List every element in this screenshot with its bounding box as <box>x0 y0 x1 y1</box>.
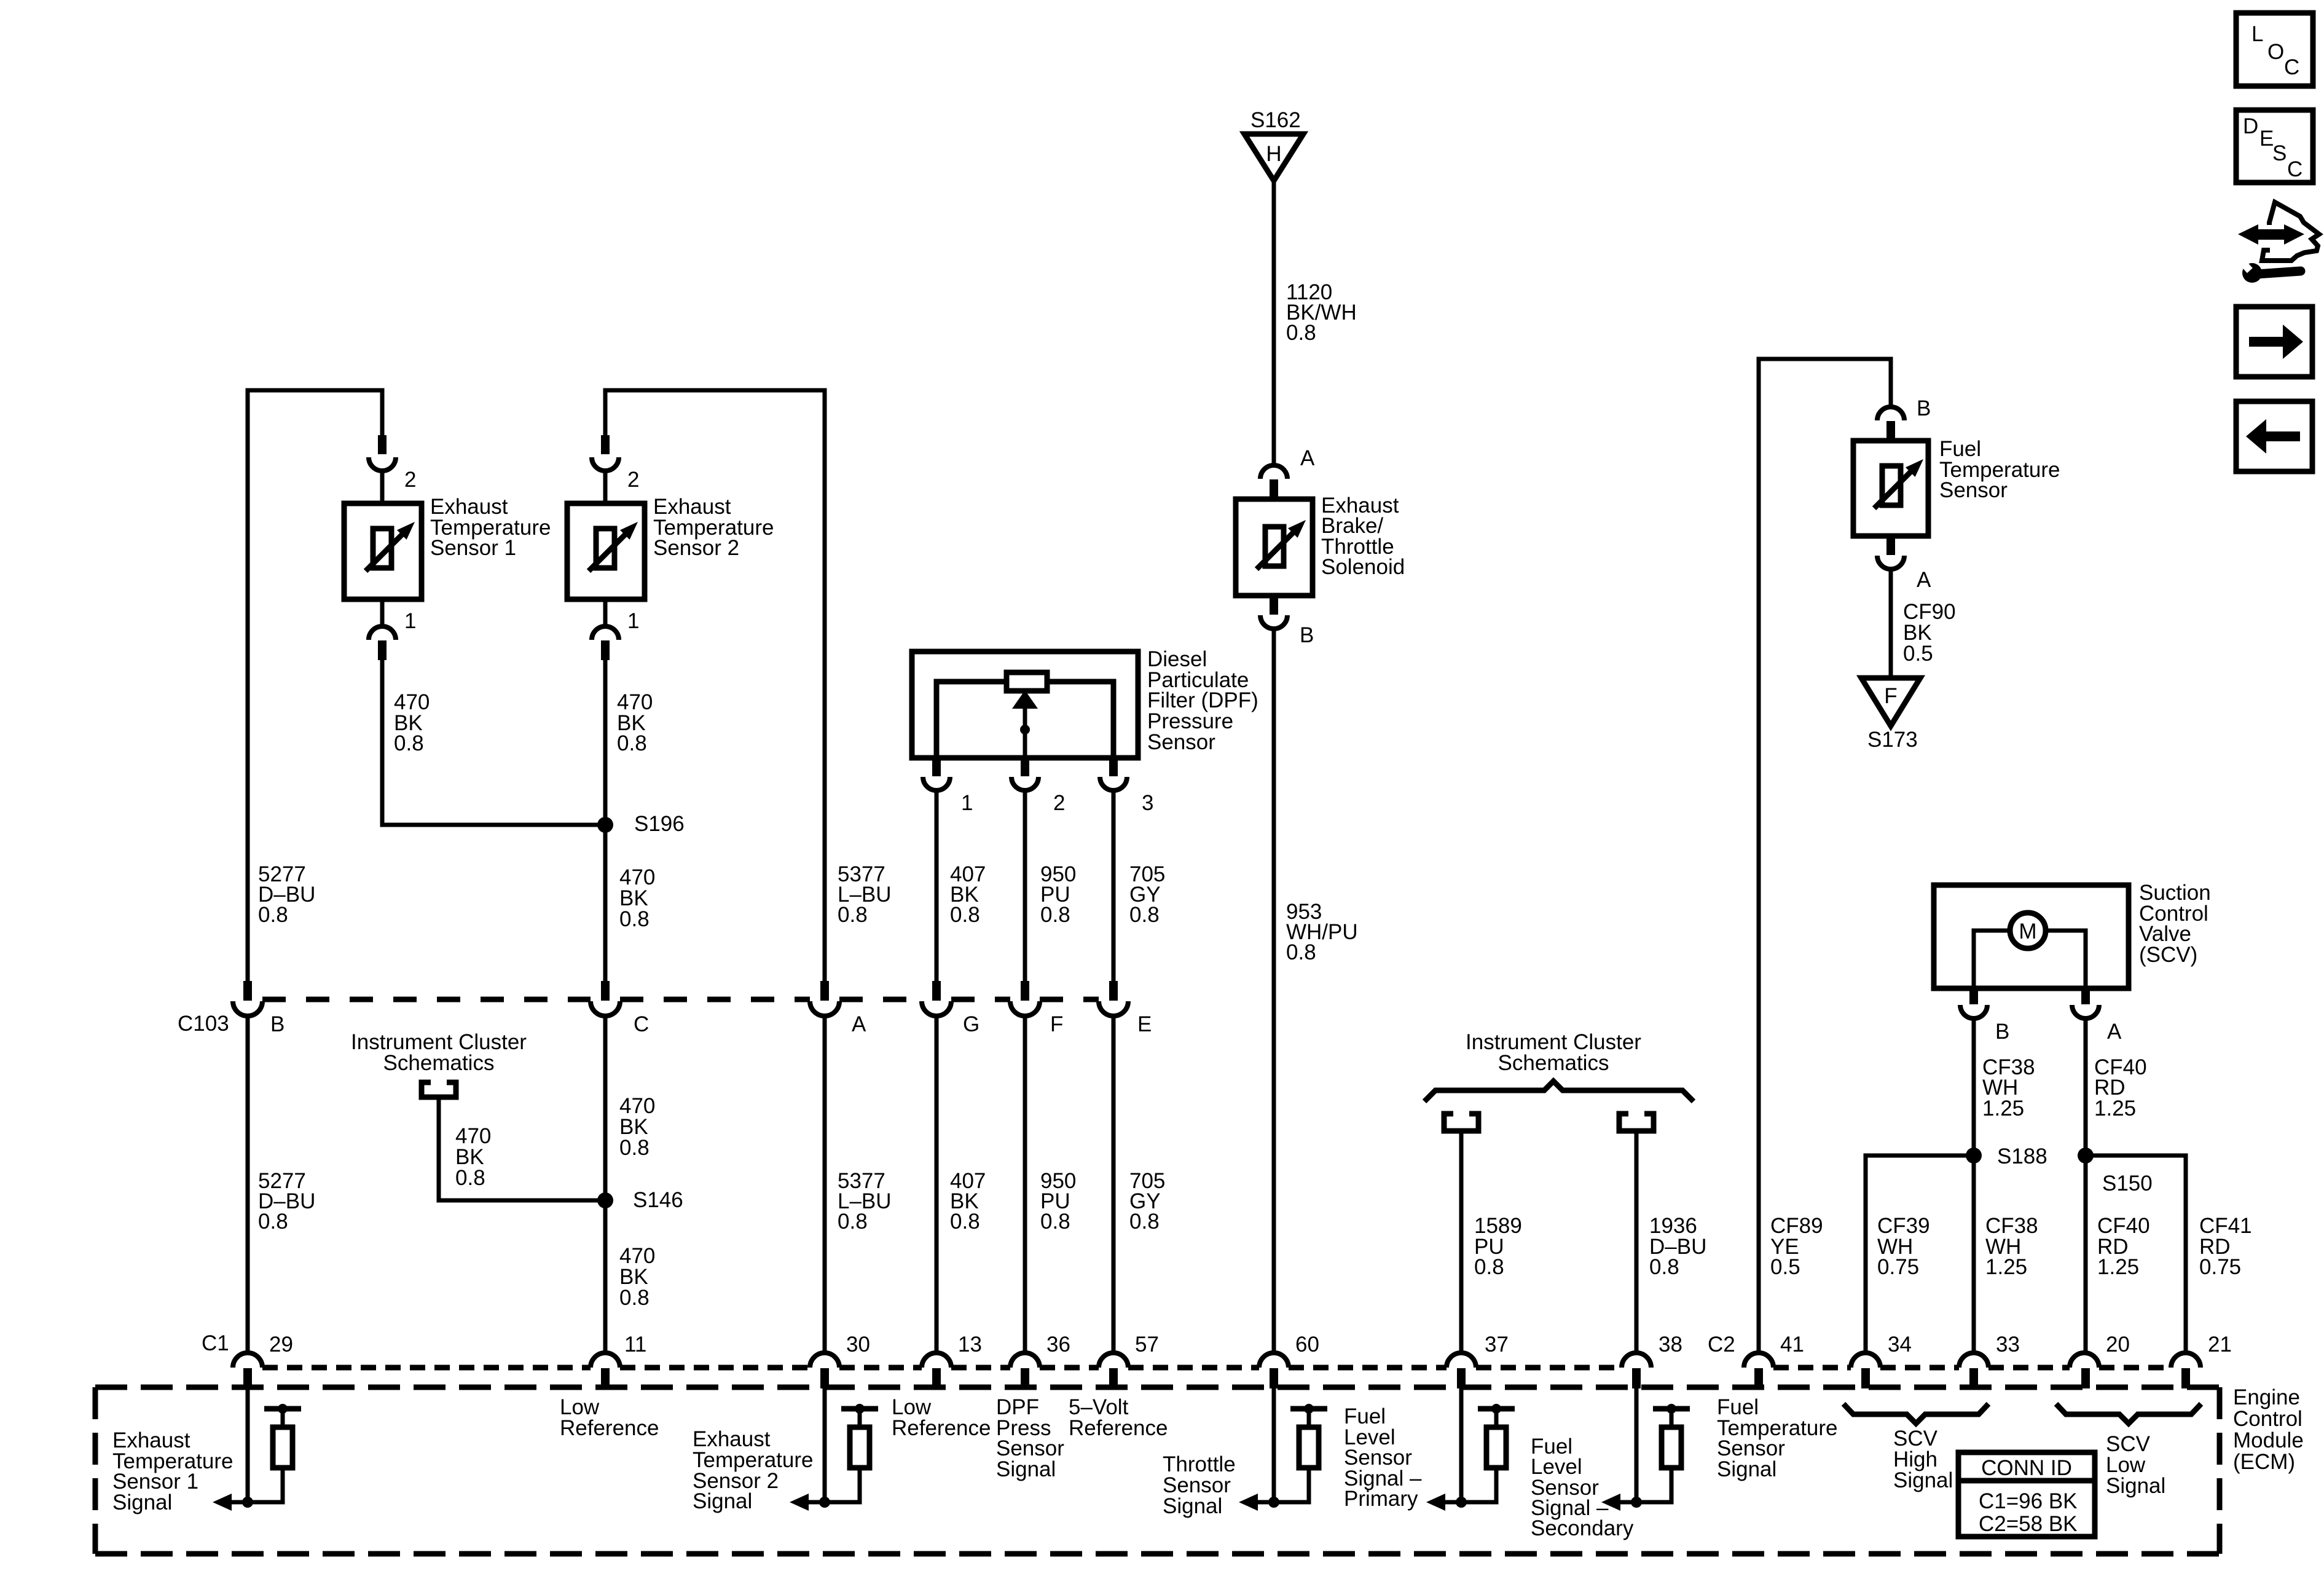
svg-text:G: G <box>963 1012 979 1036</box>
splice S188 <box>1966 1148 1982 1164</box>
svg-text:30: 30 <box>846 1333 870 1357</box>
wire through ETS1 box <box>380 503 385 600</box>
svg-text:3: 3 <box>1142 791 1153 815</box>
svg-text:Signal: Signal <box>693 1489 752 1513</box>
connector pin 1 of ETS1 <box>380 599 385 627</box>
connector pin 2 of Exhaust Temperature Sensor 1 (male stub and female arc) <box>378 435 387 454</box>
svg-text:S196: S196 <box>634 812 685 836</box>
wire through fuel temperature sensor box <box>1889 441 1893 536</box>
svg-text:0.8: 0.8 <box>1286 940 1316 964</box>
wire 953 WH/PU from solenoid pin B to ECM pin 60 <box>1272 628 1276 1355</box>
svg-text:Solenoid: Solenoid <box>1321 555 1405 579</box>
svg-text:A: A <box>1300 446 1315 470</box>
ECM connector pin 33 <box>1959 1353 1988 1368</box>
ECM connector pin 13 <box>922 1353 951 1368</box>
svg-text:C2=58 BK: C2=58 BK <box>1979 1512 2078 1536</box>
splice S150 <box>2078 1148 2094 1164</box>
svg-text:1: 1 <box>961 791 973 815</box>
svg-text:20: 20 <box>2106 1333 2130 1357</box>
svg-text:57: 57 <box>1135 1333 1159 1357</box>
svg-text:B: B <box>1995 1020 2009 1044</box>
wire 1120 BK/WH from S162 to exhaust brake/throttle solenoid pin A <box>1272 181 1276 466</box>
svg-text:0.8: 0.8 <box>1649 1255 1679 1279</box>
svg-text:Sensor: Sensor <box>1147 730 1215 754</box>
svg-text:36: 36 <box>1046 1333 1070 1357</box>
ECM internal circuit pin 38 (fuel level sensor signal secondary) <box>1635 1388 1639 1502</box>
wire CF39 WH branch from S188 to ECM pin 34 <box>1866 1156 1974 1355</box>
svg-text:1.25: 1.25 <box>2097 1255 2139 1279</box>
C103 connector pin C <box>601 981 610 1001</box>
connector pin 2 of Exhaust Temperature Sensor 2 <box>601 435 610 454</box>
instrument cluster continuation bracket (wire 1936) <box>1619 1114 1654 1131</box>
svg-text:0.8: 0.8 <box>1474 1255 1504 1279</box>
LOC reference box <box>2236 13 2313 86</box>
ECM connector pin 30 <box>810 1353 839 1368</box>
ECM connector pin 41 <box>1744 1353 1773 1368</box>
svg-text:0.75: 0.75 <box>2199 1255 2241 1279</box>
thermistor element ETS1 <box>373 529 391 568</box>
diesel particulate filter (DPF) pressure sensor box <box>912 652 1138 758</box>
svg-text:S162: S162 <box>1250 108 1301 132</box>
svg-text:Signal: Signal <box>996 1457 1056 1481</box>
wire 470 BK from ETS2 pin 1 down through S196 and S146 to ECM pin 11 <box>603 660 608 982</box>
wire pin2 arc to ETS1 box <box>380 470 385 504</box>
ECM connector pin row dashed line <box>262 1365 591 1371</box>
svg-text:Signal: Signal <box>2106 1474 2165 1498</box>
ECM connector pin 11 <box>591 1353 620 1368</box>
DESC reference box <box>2236 110 2313 183</box>
svg-text:0.8: 0.8 <box>1286 321 1316 345</box>
svg-text:Secondary: Secondary <box>1531 1516 1634 1540</box>
ECM internal circuit pin 29 (exhaust temperature sensor 1 signal) <box>246 1388 250 1502</box>
solenoid variable element <box>1265 527 1284 566</box>
ECM connector pin 57 <box>1099 1353 1128 1368</box>
fuel temperature sensor box <box>1853 441 1928 536</box>
svg-text:(ECM): (ECM) <box>2233 1450 2295 1474</box>
svg-text:C1=96 BK: C1=96 BK <box>1979 1489 2078 1513</box>
wire 705 GY from C103 pin E to ECM pin 57 <box>1112 1015 1116 1355</box>
svg-text:0.8: 0.8 <box>1040 903 1070 927</box>
svg-text:0.8: 0.8 <box>838 1210 868 1234</box>
svg-text:1.25: 1.25 <box>1985 1255 2027 1279</box>
svg-text:F: F <box>1050 1012 1063 1036</box>
SCV motor symbol M <box>2010 913 2046 948</box>
connector pin A of SCV <box>2081 988 2090 1004</box>
ECM connector pin 60 <box>1259 1353 1289 1368</box>
svg-text:Engine: Engine <box>2233 1385 2300 1409</box>
svg-text:1: 1 <box>627 609 639 633</box>
wire 950 PU from DPF pin 2 to C103 pin F <box>1023 790 1027 983</box>
svg-text:0.8: 0.8 <box>619 1286 650 1310</box>
instrument cluster brace (right) <box>1424 1081 1694 1101</box>
svg-text:M: M <box>2019 919 2036 943</box>
svg-text:0.8: 0.8 <box>394 731 424 755</box>
exhaust temperature sensor 1 box <box>344 503 422 599</box>
svg-text:S188: S188 <box>1997 1144 2047 1168</box>
CONN ID table box <box>1958 1452 2095 1537</box>
vehicle data icon (double arrow, outline, wrench) <box>2238 224 2304 245</box>
C103 connector pin A <box>820 981 829 1001</box>
svg-text:0.8: 0.8 <box>455 1166 485 1190</box>
svg-text:11: 11 <box>624 1333 646 1357</box>
svg-text:13: 13 <box>958 1333 982 1357</box>
C103 connector pin F <box>1021 981 1029 1001</box>
svg-text:E: E <box>2259 127 2274 151</box>
ECM connector pin 36 <box>1010 1353 1040 1368</box>
svg-text:0.8: 0.8 <box>1129 903 1160 927</box>
wire 1936 D-BU from instrument cluster to ECM pin 38 <box>1635 1133 1639 1355</box>
svg-text:C2: C2 <box>1708 1333 1735 1357</box>
wire 705 GY from DPF pin 3 to C103 pin E <box>1112 790 1116 983</box>
svg-text:Reference: Reference <box>892 1416 991 1440</box>
back arrow box <box>2236 401 2312 471</box>
svg-text:Schematics: Schematics <box>383 1051 495 1075</box>
DPF potentiometer element <box>1007 672 1047 691</box>
svg-text:B: B <box>270 1012 285 1036</box>
connector pin A of exhaust brake/throttle solenoid <box>1260 465 1287 479</box>
C103 connector pin B <box>243 981 252 1001</box>
svg-text:Module: Module <box>2233 1428 2304 1452</box>
SCV internal wiring <box>1974 931 2086 988</box>
svg-text:Sensor: Sensor <box>1939 478 2008 502</box>
wire 5277 D-BU loop from C103 pin B up and over to Exhaust Temperature Sensor 1 pin 2 <box>248 390 382 983</box>
ECM connector pin 20 <box>2070 1353 2099 1368</box>
svg-text:Sensor 1: Sensor 1 <box>430 536 516 560</box>
svg-text:C1: C1 <box>202 1331 229 1355</box>
svg-text:Signal: Signal <box>112 1490 172 1514</box>
svg-text:0.5: 0.5 <box>1903 642 1933 666</box>
ECM connector pin 21 <box>2171 1353 2200 1368</box>
exhaust brake/throttle solenoid box <box>1236 499 1313 596</box>
svg-text:60: 60 <box>1295 1333 1319 1357</box>
DPF connector pin 1 <box>932 758 941 776</box>
svg-text:37: 37 <box>1485 1333 1509 1357</box>
wire 5377 L-BU loop from Exhaust Temperature Sensor 2 pin 2 over to C103 pin A <box>605 390 825 983</box>
ECM connector pin 34 <box>1851 1353 1880 1368</box>
svg-text:2: 2 <box>627 468 639 492</box>
svg-text:0.8: 0.8 <box>617 731 647 755</box>
svg-text:H: H <box>1266 142 1281 166</box>
ECM internal circuit pin 60 (throttle sensor signal) <box>1272 1388 1276 1502</box>
wire 407 BK from C103 pin G to ECM pin 13 <box>935 1015 939 1355</box>
connector pin B of fuel temperature sensor <box>1877 407 1904 420</box>
svg-text:0.8: 0.8 <box>950 1210 980 1234</box>
ECM connector pin 29 <box>233 1353 262 1368</box>
ECM connector pin 38 <box>1622 1353 1651 1368</box>
svg-text:S150: S150 <box>2102 1171 2153 1195</box>
svg-text:C: C <box>2284 55 2299 79</box>
svg-text:21: 21 <box>2208 1333 2232 1357</box>
svg-text:L: L <box>2251 22 2263 46</box>
thermistor element FTS <box>1882 466 1901 505</box>
svg-text:0.8: 0.8 <box>619 1136 650 1160</box>
svg-text:C103: C103 <box>178 1012 229 1036</box>
svg-text:Signal: Signal <box>1717 1457 1776 1481</box>
svg-text:CONN ID: CONN ID <box>1981 1456 2072 1480</box>
DPF wiper arrow <box>1023 707 1027 758</box>
svg-text:E: E <box>1137 1012 1152 1036</box>
svg-text:A: A <box>1917 568 1931 592</box>
wire 470 BK from C103 pin C to ECM pin 11 <box>603 1015 608 1355</box>
svg-text:Control: Control <box>2233 1407 2302 1431</box>
svg-text:0.8: 0.8 <box>1129 1210 1160 1234</box>
wire through solenoid box <box>1272 499 1276 596</box>
wire pin2 arc to ETS2 box <box>603 470 608 504</box>
svg-text:A: A <box>852 1012 866 1036</box>
svg-text:1: 1 <box>404 609 416 633</box>
forward arrow box <box>2236 307 2312 377</box>
svg-text:O: O <box>2267 40 2284 64</box>
svg-text:Reference: Reference <box>560 1416 659 1440</box>
svg-text:F: F <box>1884 684 1897 708</box>
svg-text:C: C <box>2287 157 2302 181</box>
svg-text:0.8: 0.8 <box>950 903 980 927</box>
svg-text:2: 2 <box>404 468 416 492</box>
svg-text:0.8: 0.8 <box>838 903 868 927</box>
splice S146 <box>597 1192 613 1208</box>
svg-text:Reference: Reference <box>1069 1416 1168 1440</box>
svg-text:0.8: 0.8 <box>619 907 650 931</box>
svg-text:1.25: 1.25 <box>2094 1097 2136 1120</box>
svg-text:41: 41 <box>1780 1333 1804 1357</box>
svg-text:Signal: Signal <box>1893 1468 1953 1492</box>
svg-text:34: 34 <box>1888 1333 1912 1357</box>
svg-text:(SCV): (SCV) <box>2139 943 2197 967</box>
engine control module (ECM) dashed box <box>95 1385 2220 1390</box>
svg-text:S: S <box>2272 141 2287 165</box>
svg-text:0.8: 0.8 <box>258 903 288 927</box>
ECM connector pin 37 <box>1447 1353 1476 1368</box>
wire 470 BK from instrument cluster bracket to splice S146 <box>439 1100 605 1200</box>
wire 5377 L-BU from C103 pin A to ECM pin 30 <box>823 1015 827 1355</box>
thermistor element ETS2 <box>596 529 614 568</box>
svg-text:0.75: 0.75 <box>1877 1255 1919 1279</box>
svg-text:1.25: 1.25 <box>1982 1097 2024 1120</box>
SCV High Signal brace <box>1843 1404 1988 1423</box>
splice S196 <box>597 817 613 833</box>
wire through ETS2 box <box>603 503 608 600</box>
connector pin B of SCV <box>1969 988 1978 1004</box>
wire 5277 D-BU from C103 pin B to ECM pin 29 <box>246 1015 250 1355</box>
svg-text:0.8: 0.8 <box>1040 1210 1070 1234</box>
svg-text:Schematics: Schematics <box>1498 1051 1609 1075</box>
svg-text:B: B <box>1917 396 1931 420</box>
wire CF90 BK from FTS pin A to S173 <box>1889 569 1893 678</box>
C103 inline connector row (dashed) <box>262 997 591 1002</box>
svg-text:38: 38 <box>1659 1333 1682 1357</box>
svg-text:2: 2 <box>1053 791 1065 815</box>
wire 470 BK from ETS1 pin 1 down to splice S196 <box>382 660 605 825</box>
ECM internal circuit pin 30 (exhaust temperature sensor 2 signal) <box>823 1388 827 1502</box>
ECM internal circuit pin 37 (fuel level sensor signal primary) <box>1459 1388 1464 1502</box>
DPF connector pin 3 <box>1109 758 1118 776</box>
wire CF38 WH from SCV pin B through S188 to ECM pin 33 <box>1972 1018 1976 1355</box>
suction control valve (SCV) box <box>1934 885 2129 988</box>
C103 connector pin G <box>932 981 941 1001</box>
svg-text:33: 33 <box>1996 1333 2020 1357</box>
svg-text:D: D <box>2243 114 2258 138</box>
connector pin A of fuel temperature sensor <box>1886 536 1895 555</box>
svg-text:S146: S146 <box>633 1188 683 1212</box>
connector pin 1 of ETS2 <box>603 599 608 627</box>
wire CF41 RD branch from S150 to ECM pin 21 <box>2086 1156 2186 1355</box>
splice symbol S173 (triangle F) <box>1861 678 1920 726</box>
svg-text:A: A <box>2107 1020 2122 1044</box>
svg-text:0.8: 0.8 <box>258 1210 288 1234</box>
svg-text:Signal: Signal <box>1163 1494 1222 1518</box>
C103 connector pin E <box>1109 981 1118 1001</box>
wire CF89 YE loop from ECM pin 41 up and over to fuel temperature sensor pin B <box>1759 359 1891 1355</box>
wire 407 BK from DPF pin 1 to C103 pin G <box>935 790 939 983</box>
wire 1589 PU from instrument cluster to ECM pin 37 <box>1459 1133 1464 1355</box>
DPF connector pin 2 <box>1021 758 1029 776</box>
exhaust temperature sensor 2 box <box>567 503 645 599</box>
svg-text:29: 29 <box>269 1333 293 1357</box>
SCV Low Signal brace <box>2056 1404 2201 1423</box>
wire CF40 RD from SCV pin A through S150 to ECM pin 20 <box>2084 1018 2088 1355</box>
svg-text:B: B <box>1300 623 1314 647</box>
connector pin B of solenoid <box>1270 596 1278 615</box>
instrument cluster continuation bracket (wire 1589) <box>1444 1114 1478 1131</box>
svg-text:Primary: Primary <box>1344 1487 1418 1511</box>
DPF wiper dot <box>1020 725 1030 734</box>
instrument cluster continuation bracket (left) <box>422 1082 456 1097</box>
svg-text:C: C <box>634 1012 649 1036</box>
svg-text:S173: S173 <box>1867 728 1918 752</box>
wire 950 PU from C103 pin F to ECM pin 36 <box>1023 1015 1027 1355</box>
svg-text:0.5: 0.5 <box>1770 1255 1800 1279</box>
DPF potentiometer track (inner U) <box>936 682 1113 758</box>
svg-text:Sensor 2: Sensor 2 <box>653 536 739 560</box>
